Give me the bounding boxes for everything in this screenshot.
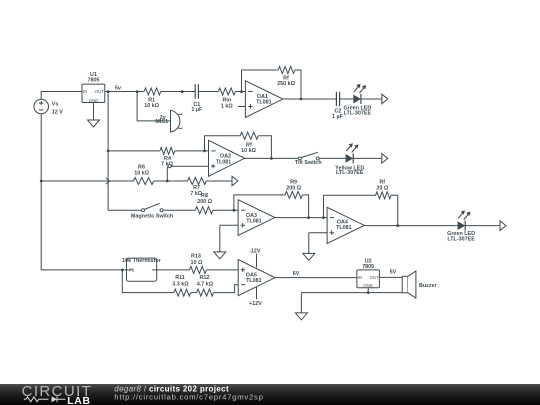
- wire: [41, 180, 133, 182]
- wire: [213, 209, 238, 211]
- resistor Rf 10k: [240, 132, 258, 154]
- svg-text:TL081: TL081: [256, 100, 272, 106]
- svg-text:10 kΩ: 10 kΩ: [144, 103, 159, 109]
- wire: [154, 180, 188, 182]
- svg-text:GND: GND: [363, 283, 372, 288]
- wire: [93, 103, 95, 121]
- node: [136, 90, 139, 93]
- svg-text:10 kΩ: 10 kΩ: [241, 148, 256, 154]
- node: [233, 209, 236, 212]
- wire: [198, 91, 218, 93]
- LED D1 green: [343, 84, 371, 117]
- microphone MIC1: [155, 110, 182, 132]
- svg-text:6V: 6V: [293, 271, 300, 277]
- svg-text:200 Ω: 200 Ω: [197, 199, 212, 205]
- power -12V: [249, 249, 261, 268]
- ground: [88, 120, 100, 127]
- wire: [309, 232, 327, 234]
- svg-text:1 µF: 1 µF: [332, 114, 344, 120]
- wire: [242, 70, 279, 92]
- node: [40, 180, 43, 183]
- svg-text:http://circuitlab.com/c7epr47g: http://circuitlab.com/c7epr47gmv2sp: [114, 392, 263, 401]
- wire: [275, 277, 357, 279]
- wire: [275, 217, 327, 219]
- LED D3 green: [447, 210, 475, 242]
- wire: [360, 98, 381, 100]
- wire: [300, 293, 302, 313]
- wire: [107, 92, 109, 211]
- wire: [245, 157, 299, 159]
- node: [270, 157, 273, 160]
- ground: [295, 313, 307, 320]
- resistor R12 4.7k: [197, 275, 214, 296]
- op-amp OA1 TL081: [245, 81, 283, 118]
- resistor R9 200: [285, 179, 302, 198]
- wire: [171, 165, 208, 167]
- open terminal: [168, 165, 171, 168]
- svg-text:R13: R13: [191, 254, 201, 260]
- svg-text:LTL-307EE: LTL-307EE: [447, 237, 475, 243]
- svg-text:200 Ω: 200 Ω: [286, 186, 301, 192]
- wire: [258, 136, 271, 159]
- port out4: [500, 221, 506, 231]
- resistor R13 10: [190, 254, 207, 274]
- tilt switch SW1: [295, 152, 322, 166]
- svg-text:MIC1: MIC1: [155, 119, 168, 125]
- resistor R4 7k: [160, 147, 175, 167]
- svg-text:20 Ω: 20 Ω: [376, 185, 388, 191]
- node: [322, 216, 325, 219]
- wire: [234, 195, 285, 210]
- node: [367, 291, 370, 294]
- resistor R7 7k: [188, 178, 207, 197]
- net label 6V: [293, 271, 300, 277]
- wire: [319, 157, 345, 159]
- wire: [364, 225, 457, 227]
- svg-text:12 V: 12 V: [52, 110, 63, 116]
- node: [181, 90, 184, 93]
- svg-text:+12V: +12V: [249, 301, 262, 307]
- svg-text:7805: 7805: [362, 264, 374, 270]
- wire: [302, 195, 308, 218]
- wire: [301, 292, 402, 294]
- wire: [41, 114, 126, 270]
- power +12V: [249, 287, 262, 307]
- svg-text:TL081: TL081: [336, 225, 352, 231]
- node: [166, 180, 169, 183]
- svg-text:OUT: OUT: [95, 89, 104, 94]
- wire: [295, 70, 301, 99]
- wire: [379, 276, 402, 278]
- wire: [283, 98, 337, 100]
- svg-text:Buzzer: Buzzer: [419, 283, 438, 289]
- svg-text:LTL-307EE: LTL-307EE: [336, 170, 364, 176]
- op-amp OA5 TL081: [238, 260, 275, 296]
- node: [203, 150, 206, 153]
- svg-text:1 µF: 1 µF: [191, 107, 203, 113]
- svg-text:LTL-307EE: LTL-307EE: [344, 111, 372, 117]
- svg-text:Magnetic Switch: Magnetic Switch: [131, 213, 173, 219]
- svg-text:LAB: LAB: [67, 396, 90, 405]
- buzzer BZ1: [402, 271, 437, 298]
- svg-text:Vs: Vs: [52, 102, 59, 108]
- wire: [214, 285, 239, 293]
- resistor Rin 1k: [218, 88, 235, 109]
- wire: [105, 91, 144, 93]
- node: [396, 224, 399, 227]
- footer bar: [0, 384, 540, 405]
- svg-text:R11: R11: [175, 275, 185, 281]
- LED D2 yellow: [335, 143, 364, 176]
- svg-text:OUT: OUT: [370, 275, 379, 280]
- svg-text:10 kΩ: 10 kΩ: [134, 170, 149, 176]
- svg-text:Tilt Switch: Tilt Switch: [295, 160, 322, 166]
- svg-text:10k Thermistor: 10k Thermistor: [122, 258, 162, 264]
- wire: [219, 225, 221, 252]
- svg-text:GND: GND: [89, 98, 98, 103]
- resistor R11 3.3k: [172, 275, 190, 296]
- footer credits: [114, 384, 263, 401]
- wire: [163, 209, 195, 211]
- wire: [205, 136, 241, 151]
- svg-text:5v: 5v: [115, 85, 121, 91]
- svg-text:-12V: -12V: [249, 249, 261, 255]
- wire: [367, 288, 369, 293]
- wire: [108, 150, 160, 152]
- node: [300, 98, 303, 101]
- wire: [324, 195, 376, 217]
- thermistor P1 10k: [122, 258, 162, 281]
- svg-text:TL081: TL081: [246, 218, 262, 224]
- svg-text:1 kΩ: 1 kΩ: [221, 103, 233, 109]
- wire: [206, 269, 238, 271]
- wire: [191, 292, 197, 294]
- svg-text:7805: 7805: [88, 78, 100, 84]
- resistor R8 200: [195, 193, 212, 214]
- capacitor C2 1uF: [332, 92, 344, 120]
- wire: [220, 224, 238, 226]
- svg-text:250 kΩ: 250 kΩ: [277, 81, 295, 87]
- wire: [41, 92, 82, 100]
- port out3: [232, 176, 238, 186]
- node: [307, 216, 310, 219]
- port out1: [382, 94, 388, 104]
- wire hop: [106, 178, 110, 184]
- wire: [238, 106, 246, 108]
- wire: [308, 233, 310, 254]
- wire: [166, 167, 168, 181]
- wire: [137, 92, 170, 121]
- wire: [122, 270, 174, 293]
- voltage regulator U1 7805: [82, 72, 105, 103]
- wire: [161, 91, 195, 93]
- svg-text:R12: R12: [199, 275, 209, 281]
- port out2: [382, 154, 388, 164]
- magnetic switch SW2: [131, 203, 173, 219]
- wire: [157, 269, 190, 271]
- op-amp OA2 TL081: [209, 140, 245, 176]
- svg-text:10 Ω: 10 Ω: [190, 260, 202, 266]
- wire: [340, 98, 354, 100]
- resistor R6 10k: [133, 165, 153, 185]
- node: [107, 90, 110, 93]
- svg-text:TL081: TL081: [216, 159, 232, 165]
- wire: [353, 157, 382, 159]
- node: [121, 269, 124, 272]
- wire: [465, 225, 500, 227]
- op-amp OA4 TL081: [327, 207, 364, 243]
- svg-text:P1: P1: [129, 268, 134, 273]
- resistor Rf 20: [376, 179, 392, 199]
- ground: [303, 253, 315, 260]
- svg-text:Rf: Rf: [379, 179, 385, 185]
- node: [107, 150, 110, 153]
- CircuitLab logo: [22, 383, 93, 405]
- wire: [175, 150, 209, 152]
- net label 5V: [390, 270, 397, 276]
- ground: [214, 252, 226, 259]
- svg-text:4.7 kΩ: 4.7 kΩ: [197, 282, 214, 288]
- svg-text:TL081: TL081: [246, 278, 262, 284]
- resistor Rf 250k: [277, 67, 295, 88]
- voltage regulator U2 7805: [357, 258, 380, 288]
- svg-text:5V: 5V: [390, 270, 397, 276]
- wire: [206, 180, 232, 182]
- wire: [235, 91, 245, 93]
- resistor R1 10k: [144, 88, 161, 109]
- op-amp OA3 TL081: [238, 200, 275, 236]
- net label 5v: [115, 85, 121, 91]
- wire: [391, 195, 398, 225]
- capacitor C1 1uF: [191, 84, 203, 113]
- wire: [108, 209, 141, 211]
- svg-text:3.3 kΩ: 3.3 kΩ: [172, 282, 189, 288]
- node: [240, 90, 243, 93]
- svg-text:R9: R9: [290, 179, 297, 185]
- voltage source Vs 12V: [34, 99, 63, 115]
